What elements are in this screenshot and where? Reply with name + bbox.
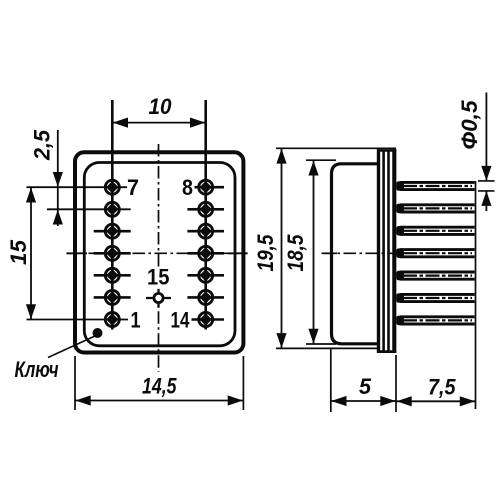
flange top cap [377,149,396,152]
tick row 6 left [94,296,131,299]
vertical centerline front view [158,144,160,372]
svg-text:19,5: 19,5 [253,234,278,272]
pins side view [396,181,474,325]
dim 5 line [331,400,396,402]
flange bottom cap [377,350,396,353]
key leader line [48,336,95,358]
side view body [332,164,379,344]
ext line body-left for dim 5 [330,348,332,413]
pin lead 3 [396,226,474,236]
ext line top (19,5) [276,147,396,149]
pins left column rings [105,180,212,326]
svg-text:1: 1 [131,308,141,333]
dim 7,5 line [396,400,476,402]
ext line bottom (19,5) [276,347,377,349]
tick row 1 right (pin 8) [195,186,225,189]
tick row 4 left [94,252,131,255]
extension line row 7 (pin 1, for dim 15) [27,319,129,321]
svg-text:10: 10 [149,94,173,119]
extension line row 2 (for dim 2.5) [47,208,131,210]
svg-text:14,5: 14,5 [142,374,177,399]
svg-text:18,5: 18,5 [283,234,308,272]
tick rows 2-6 right [187,208,224,211]
dim 10 arrows [113,118,206,128]
dim 19,5 line [281,148,283,348]
dia 0,5 ext lines [478,181,495,191]
dim 15 arrows [26,188,36,320]
dim 14,5 arrows [75,395,243,405]
pin 15 circle [146,289,171,308]
ext line pin tips for dim 7,5 [475,181,477,409]
dim 19,5 arrows [276,149,286,348]
svg-text:7: 7 [127,175,139,200]
pin lead 4 [396,248,474,258]
tick row 5 left [94,274,131,277]
dia 0,5 arrow upper [481,166,491,181]
svg-text:15: 15 [6,239,31,265]
pin column line left (also ext line of dim 10) [111,100,114,330]
pin lead 2 [396,204,474,214]
dim 14,5 line [75,400,243,402]
tick row 3 left [94,230,131,233]
side view flange plate bars [377,149,380,353]
svg-text:Ф0,5: Ф0,5 [457,100,482,150]
dim 18,5 line [313,160,315,344]
pin lead 5 [396,271,474,281]
svg-text:14: 14 [171,308,191,333]
svg-text:Ключ: Ключ [15,357,59,382]
key dot [93,328,103,338]
dim 10 line [112,122,205,124]
svg-text:2,5: 2,5 [30,129,55,161]
ext lines dim 14,5 [75,356,243,410]
svg-text:8: 8 [182,175,193,200]
ext line top (18,5) [306,159,336,161]
dim 5 arrows [331,396,395,406]
ext line bottom (18,5) [306,343,336,345]
dim 7,5 arrows [396,396,475,406]
svg-text:5: 5 [359,374,372,399]
ext line flange-right shared dims 5/7,5 [395,355,397,412]
package outline front view [75,152,243,352]
extension line row 1 (pins 7/8, for dims 2.5 and 15) [27,186,128,188]
pin lead 1 [396,181,474,191]
svg-text:7,5: 7,5 [428,375,456,400]
svg-text:15: 15 [147,265,170,290]
pins diamonds [106,181,212,326]
side view horizontal centerline [322,252,397,254]
tick row 7 right (pin 14) [192,318,225,321]
pin lead 6 [396,293,474,303]
package lid inner outline front view [84,163,235,346]
pin lead 7 [396,316,474,326]
dia 0,5 dim line lower [485,191,487,211]
dia 0,5 dim line upper [485,93,487,181]
dim 18,5 arrows [308,161,318,344]
dim 2,5 line [57,130,59,226]
dim 15 line [30,187,32,319]
dim 2,5 arrows [53,172,63,225]
pin column line right (also ext line of dim 10) [204,100,207,330]
horizontal centerline front view [67,252,248,254]
dia 0,5 arrow lower [481,191,491,206]
